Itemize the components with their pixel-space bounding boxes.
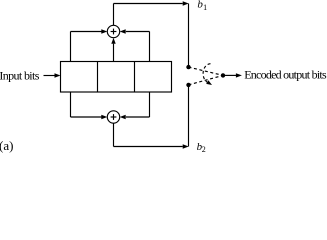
wire: dashed switch throw from b1 contact [189, 67, 224, 75]
wire: input arrow into register [44, 73, 61, 77]
wire: stage1 top tap to top adder [71, 29, 108, 61]
commutator rotation arc [203, 64, 212, 85]
wire: top adder output to b1 rail [114, 1, 189, 67]
svg-text:2: 2 [202, 145, 206, 154]
op: bottom modulo-2 adder [107, 111, 119, 123]
svg-text:1: 1 [203, 3, 207, 12]
node: output dot [221, 73, 225, 77]
svg-text:Encoded output bits: Encoded output bits [244, 67, 327, 81]
wire: bottom adder output to b2 rail [114, 85, 189, 149]
shift register (3-stage) [61, 62, 172, 93]
wire: dashed switch throw from b2 contact [189, 75, 224, 85]
wire: output arrow [223, 73, 242, 77]
wire: stage3 top tap to top adder [120, 29, 150, 61]
wire: stage3 bottom tap to bottom adder [120, 92, 150, 119]
node: b1 contact dot [186, 65, 190, 69]
svg-text:(a): (a) [0, 138, 13, 153]
wire: stage2 top tap to top adder [111, 38, 115, 62]
svg-text:Input bits: Input bits [0, 68, 40, 82]
wire: stage1 bottom tap to bottom adder [71, 92, 108, 119]
node: b2 contact dot [186, 83, 190, 87]
op: top modulo-2 adder [107, 25, 119, 37]
